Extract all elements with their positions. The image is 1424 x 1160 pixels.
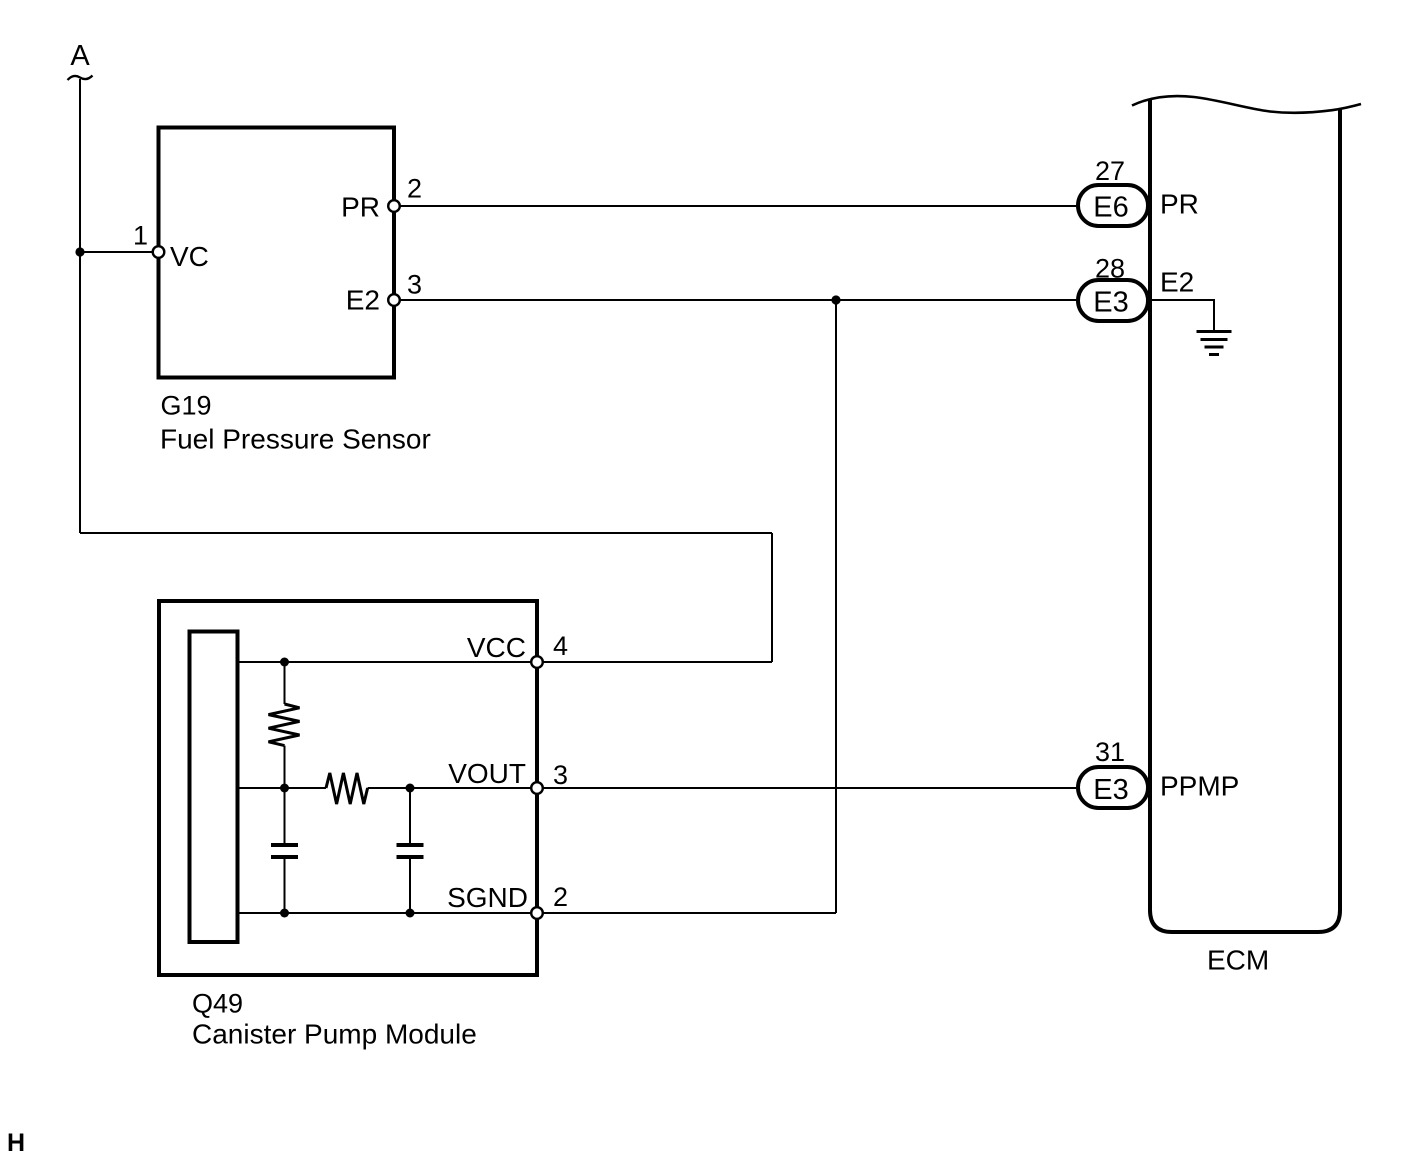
wire SGND horizontal [543,912,836,914]
svg-text:G19: G19 [161,391,212,421]
internal SGND wire [239,912,531,914]
connector oval E6 (pin 27) [1078,185,1148,226]
svg-text:4: 4 [553,631,568,661]
svg-text:31: 31 [1095,737,1125,767]
svg-text:Q49: Q49 [192,989,243,1019]
svg-text:H: H [7,1129,25,1157]
pin 3 VOUT circle [531,782,543,794]
junction dot E2/SGND [831,295,840,304]
pin 3 E2 circle [388,294,400,306]
wire E2 to ECM [400,299,1076,301]
junction dot VOUT/R1/C1 [280,784,289,793]
svg-text:2: 2 [407,174,422,204]
internal VCC wire [239,661,531,663]
resistor R2 (horizontal) [326,773,368,804]
resistor R1 (vertical) [269,704,300,746]
capacitor C1 top lead [284,788,286,843]
junction dot SGND/C1 [280,909,289,918]
wire to VC pin [80,251,152,253]
pin 4 VCC circle [531,656,543,668]
svg-text:28: 28 [1095,254,1125,284]
sensor box G19 [159,128,395,378]
svg-text:PPMP: PPMP [1160,771,1239,802]
svg-text:3: 3 [553,760,568,790]
wire A horizontal [80,532,772,534]
ECM body [1150,99,1340,933]
connector oval E3 (pin 28) [1078,280,1148,321]
svg-text:PR: PR [1160,189,1199,220]
wire R1 bottom lead [284,746,286,788]
junction dot VCC/R1 [280,658,289,667]
svg-text:VOUT: VOUT [448,758,526,789]
ground symbol [1197,332,1232,355]
svg-text:E6: E6 [1093,192,1128,224]
svg-text:2: 2 [553,882,568,912]
pin 2 PR circle [388,200,400,212]
svg-text:E3: E3 [1093,774,1128,806]
capacitor C2 [397,845,424,857]
svg-text:E3: E3 [1093,287,1128,319]
capacitor C2 top lead [409,788,411,843]
svg-text:A: A [70,40,90,72]
wire R1 top lead [284,662,286,704]
svg-text:SGND: SGND [447,882,528,913]
junction dot SGND/C2 [406,909,415,918]
wire A vertical drop to VCC [771,533,773,662]
svg-text:ECM: ECM [1207,945,1269,976]
capacitor C1 [271,845,298,857]
capacitor C2 bottom lead [409,859,411,913]
junction dot VOUT/C2 [406,784,415,793]
canister pump module box Q49 [159,601,537,975]
wire A to VCC pin [543,661,772,663]
svg-text:Canister Pump Module: Canister Pump Module [192,1019,477,1050]
svg-text:1: 1 [133,221,148,251]
connector oval E3 (pin 31) [1078,767,1148,808]
ECM torn-edge wave [1132,96,1361,113]
wire PR to ECM [400,205,1076,207]
internal VOUT wire right [368,787,531,789]
svg-text:3: 3 [407,270,422,300]
svg-text:E2: E2 [1160,267,1194,298]
ground wire from E2 [1152,300,1214,331]
internal VOUT wire left [239,787,326,789]
svg-text:Fuel Pressure Sensor: Fuel Pressure Sensor [160,424,431,455]
pin 1 VC circle [153,246,165,258]
pump element rectangle [190,632,238,943]
svg-text:PR: PR [341,192,380,223]
wire SGND vertical [835,300,837,913]
wire VOUT to ECM [543,787,1076,789]
svg-text:VC: VC [170,241,209,272]
pin 2 SGND circle [531,907,543,919]
junction dot VC branch [75,247,84,256]
svg-text:E2: E2 [346,285,380,316]
svg-text:VCC: VCC [467,632,526,663]
wire A vertical [79,79,81,533]
capacitor C1 bottom lead [284,859,286,913]
break symbol at top of wire A [68,76,93,81]
svg-text:27: 27 [1095,156,1125,186]
